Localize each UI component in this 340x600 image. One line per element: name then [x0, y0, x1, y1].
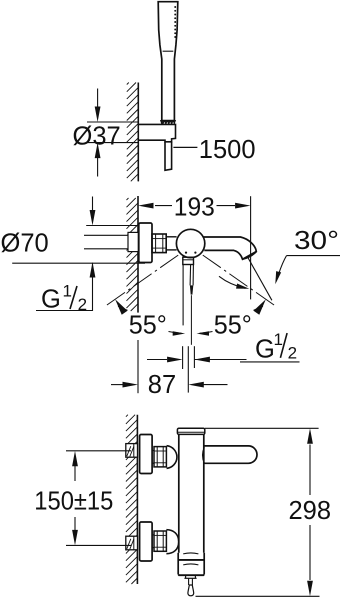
- svg-text:G: G: [255, 335, 275, 363]
- svg-text:Ø70: Ø70: [1, 230, 49, 258]
- svg-text:30°: 30°: [294, 227, 339, 255]
- svg-text:87: 87: [148, 371, 176, 399]
- svg-text:298: 298: [289, 497, 332, 525]
- svg-text:55°: 55°: [129, 312, 167, 340]
- svg-text:2: 2: [78, 295, 87, 314]
- svg-text:Ø37: Ø37: [73, 122, 121, 150]
- svg-text:1500: 1500: [199, 136, 256, 164]
- svg-text:G: G: [41, 286, 61, 314]
- svg-text:150±15: 150±15: [34, 488, 113, 516]
- svg-text:55°: 55°: [214, 312, 252, 340]
- svg-text:1: 1: [274, 330, 283, 349]
- svg-text:1: 1: [63, 281, 72, 300]
- svg-text:193: 193: [174, 194, 215, 222]
- svg-text:2: 2: [288, 344, 297, 363]
